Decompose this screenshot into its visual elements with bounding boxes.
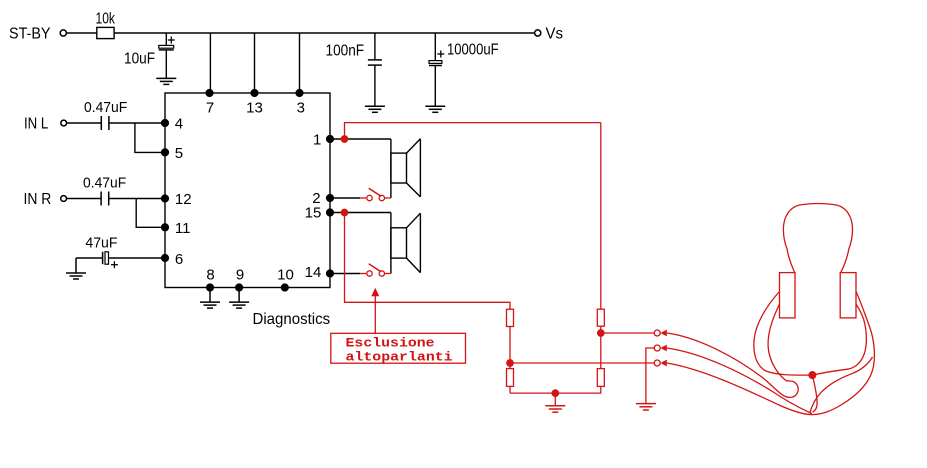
wire pin2 to switch SW1 — [330, 197, 360, 199]
resistor R1 10k — [97, 27, 114, 38]
node pin 2 — [327, 195, 334, 202]
wire down to R2 — [600, 123, 602, 310]
ground under C2 — [365, 106, 385, 112]
wire cable 1 with hook and inner-left strap — [667, 304, 798, 397]
svg-text:0.47uF: 0.47uF — [84, 99, 127, 116]
node B junction — [507, 360, 513, 366]
wire ST-BY to R1 — [67, 32, 97, 34]
wire R2 to node A — [600, 326, 602, 333]
ground under C3 — [425, 106, 445, 112]
resistor R2 — [597, 309, 604, 326]
arrowhead connector 3 — [660, 360, 666, 367]
arrowhead connector 2 — [660, 345, 666, 352]
wire pin4 to pin5 branch — [135, 123, 165, 152]
wire outer-left strap to dot — [754, 292, 813, 376]
ground red right — [636, 404, 656, 410]
node connector 3 — [654, 360, 660, 366]
capacitor C3 10000uF — [429, 33, 444, 106]
svg-text:47uF: 47uF — [85, 234, 117, 251]
ground red left — [545, 406, 565, 412]
svg-text:100nF: 100nF — [326, 42, 365, 59]
node red junction at pin 1 — [341, 136, 347, 142]
svg-text:IN R: IN R — [24, 191, 52, 208]
wire node A down to R3 — [600, 333, 602, 369]
arrow from box to switches — [374, 296, 376, 334]
wire from dot down into bundle — [812, 375, 817, 412]
wire pin1 to speaker LS1 — [330, 138, 391, 140]
svg-text:4: 4 — [175, 116, 183, 133]
node ground rail junction — [552, 390, 558, 396]
wire IN L to C4 — [67, 122, 102, 124]
node pin 8 — [207, 284, 214, 291]
wire R5 to ground rail — [509, 386, 511, 393]
svg-text:Esclusione: Esclusione — [346, 335, 435, 350]
svg-text:10k: 10k — [96, 11, 116, 28]
node pin 14 — [327, 270, 334, 277]
headphone right earpiece — [840, 273, 856, 318]
svg-text:11: 11 — [175, 220, 191, 237]
svg-text:14: 14 — [305, 264, 322, 281]
wire pin13 feed — [254, 33, 256, 93]
svg-text:Vs: Vs — [546, 25, 564, 42]
node connector 2 — [654, 345, 660, 351]
svg-text:1: 1 — [313, 132, 321, 149]
svg-text:10000uF: 10000uF — [447, 42, 499, 59]
svg-text:7: 7 — [206, 100, 214, 117]
node cable junction dot — [809, 372, 816, 379]
node ST-BY terminal — [60, 30, 66, 36]
wire pin3 feed — [299, 33, 301, 93]
wire pin15 net down and right — [345, 213, 511, 310]
wire ground rail stub — [554, 393, 556, 405]
svg-text:12: 12 — [175, 191, 192, 208]
svg-text:3: 3 — [297, 100, 305, 117]
ground under C6 — [66, 258, 86, 279]
node pin 1 — [327, 136, 334, 143]
switch SW1 — [360, 188, 391, 201]
wire R4 to node B — [509, 327, 511, 364]
wire node B to connector 3 — [510, 362, 654, 364]
capacitor C2 100nF — [368, 33, 382, 106]
node red junction at pin 15 — [341, 209, 347, 215]
ground under pin 9 — [229, 288, 249, 309]
svg-text:Diagnostics: Diagnostics — [253, 311, 331, 328]
capacitor C1 10uF — [159, 33, 175, 78]
wire C5 to pin 12 — [109, 198, 165, 200]
wire pin1 net up and right — [345, 123, 601, 139]
switch SW2 — [360, 264, 391, 276]
wire inner-right strap from dot — [812, 304, 866, 375]
node pin 12 — [162, 195, 169, 202]
svg-text:altoparlanti: altoparlanti — [346, 349, 453, 364]
node IN R terminal — [61, 196, 67, 202]
wire cable 2 rising to junction dot — [667, 348, 812, 414]
wire pin12 to pin11 branch — [136, 199, 165, 228]
capacitor C6 47uF — [76, 252, 165, 268]
resistor R3 — [597, 369, 604, 387]
node Vs terminal — [535, 30, 541, 36]
annotation box Esclusione altoparlanti — [331, 333, 466, 363]
wire C4 to pin 4 — [109, 122, 165, 124]
svg-text:13: 13 — [246, 100, 263, 117]
node pin 10 — [281, 284, 288, 291]
wire cable 3 and outer-right strap — [667, 292, 875, 415]
svg-text:9: 9 — [236, 267, 244, 284]
svg-text:IN L: IN L — [24, 115, 48, 132]
node pin 7 — [206, 90, 213, 97]
red portion — [331, 123, 875, 415]
node pin 13 — [251, 90, 258, 97]
op-amp U1 IC body — [165, 93, 330, 288]
wire pin15 to speaker LS2 — [330, 212, 391, 214]
resistor R5 — [507, 369, 514, 387]
svg-text:6: 6 — [175, 251, 183, 268]
svg-text:10: 10 — [277, 267, 294, 284]
svg-text:0.47uF: 0.47uF — [83, 174, 126, 191]
wire pin7 feed — [209, 33, 211, 93]
wire node A to connector 1 — [601, 332, 654, 334]
wire strap twist line — [810, 357, 872, 413]
ground under C1 — [156, 78, 176, 84]
speaker LS2 — [391, 213, 421, 274]
resistor R4 — [507, 309, 514, 326]
arrowhead connector 1 — [660, 330, 666, 337]
wire R3 to ground rail — [510, 386, 601, 393]
node pin 9 — [236, 284, 243, 291]
svg-text:15: 15 — [305, 205, 322, 222]
capacitor C4 0.47uF — [101, 116, 109, 130]
wire pin14 to switch SW2 — [330, 273, 360, 275]
svg-text:10uF: 10uF — [124, 51, 155, 68]
speaker LS1 — [391, 139, 421, 198]
node pin 3 — [296, 90, 303, 97]
node pin 5 — [162, 149, 169, 156]
wire node B down to R5 — [509, 363, 511, 369]
svg-text:8: 8 — [206, 267, 214, 284]
node A junction — [598, 330, 604, 336]
svg-text:5: 5 — [175, 145, 183, 162]
node IN L terminal — [61, 120, 67, 126]
svg-text:ST-BY: ST-BY — [9, 26, 51, 43]
headphone left earpiece — [780, 273, 796, 318]
node pin 6 — [162, 255, 169, 262]
node connector 1 — [654, 330, 660, 336]
node pin 4 — [162, 120, 169, 127]
wire Vs rail — [114, 32, 535, 34]
wire connector 2 to ground — [646, 348, 654, 403]
ground under pin 8 — [200, 288, 220, 309]
headphone head outline — [783, 204, 852, 273]
node pin 11 — [162, 224, 169, 231]
wire IN R to C5 — [67, 198, 102, 200]
node pin 15 — [327, 209, 334, 216]
capacitor C5 0.47uF — [101, 192, 109, 206]
